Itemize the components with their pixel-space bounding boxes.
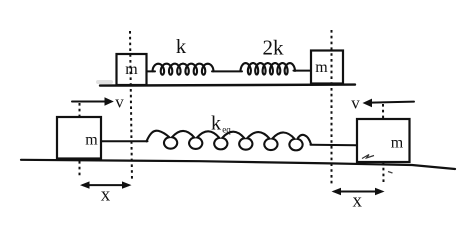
mass m box (bottom left)	[57, 117, 101, 159]
svg-text:2k: 2k	[263, 36, 285, 60]
velocity arrow v (left, pointing right)	[72, 101, 107, 103]
svg-text:x: x	[353, 191, 363, 212]
svg-text:m: m	[125, 61, 138, 78]
spring k (top left)	[153, 64, 214, 75]
mass m box (top left)	[117, 54, 147, 85]
scan scribble in bottom-right box corner	[362, 155, 374, 159]
spring 2k (top right)	[241, 63, 296, 74]
svg-text:x: x	[101, 184, 111, 205]
spring keq (bottom)	[147, 131, 312, 151]
wire: connector bottom left box to spring keq	[101, 140, 148, 142]
svg-text:eq: eq	[222, 125, 231, 135]
node: dashed line through bottom left box	[79, 103, 81, 178]
displacement arrow x (bottom left, double headed)	[83, 184, 129, 186]
node: dashed reference line left (through top box, full height)	[130, 31, 132, 181]
scan tick below ground right	[388, 172, 393, 174]
svg-text:v: v	[351, 93, 360, 112]
ground line (bottom diagram)	[21, 160, 455, 169]
node: dashed reference line right (through top box, full height)	[331, 30, 333, 184]
baseline (top diagram floor)	[100, 85, 355, 86]
svg-text:v: v	[115, 92, 124, 111]
mass m box (bottom right)	[357, 119, 410, 162]
svg-text:k: k	[211, 113, 221, 135]
svg-text:m: m	[85, 131, 98, 148]
mass m box (top right)	[311, 51, 343, 84]
node: dashed line through bottom right box	[382, 104, 385, 184]
svg-text:m: m	[391, 135, 404, 152]
wire: right connector spring 2k to box m	[294, 70, 312, 72]
displacement arrow x (bottom right, double headed)	[335, 191, 382, 193]
wire: left connector box m to spring k	[147, 70, 156, 72]
svg-text:k: k	[176, 36, 187, 58]
svg-text:m: m	[315, 59, 328, 76]
wire: connector spring keq to bottom right box	[311, 144, 358, 147]
scan smudge above top baseline	[96, 80, 113, 84]
wire: middle connector between springs	[212, 70, 242, 72]
velocity arrow v (right, pointing left)	[371, 102, 414, 103]
